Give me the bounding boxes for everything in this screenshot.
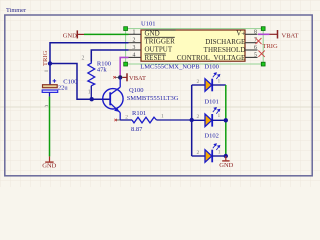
svg-text:D102: D102 (204, 132, 218, 139)
wire OUTPUT net: pin 3 to R100 (91, 50, 128, 62)
svg-text:Timmer: Timmer (6, 7, 27, 14)
svg-text:OUTPUT: OUTPUT (145, 46, 173, 54)
svg-text:D100: D100 (204, 64, 218, 71)
power port VBAT right (270, 30, 299, 39)
LED D101 (192, 108, 226, 127)
faint horizontal guide line (0, 106, 320, 108)
resistor R100 (82, 55, 95, 99)
wire cathode rail (right, green GND net) (225, 85, 227, 156)
svg-text:1: 1 (218, 149, 221, 155)
svg-text:2: 2 (125, 114, 128, 120)
svg-text:THRESHOLD: THRESHOLD (204, 46, 246, 54)
capacitor C100 (42, 71, 58, 92)
svg-text:VBAT: VBAT (282, 32, 299, 39)
selection handle squares (green) (124, 27, 265, 66)
no-ERC cross at collector junction (115, 76, 119, 78)
power port GND top-left (63, 30, 84, 39)
svg-text:GND: GND (219, 162, 233, 169)
no-ERC cross at pin 7 (256, 38, 262, 44)
svg-text:RESET: RESET (145, 54, 167, 62)
svg-text:SMMBT5551LT3G: SMMBT5551LT3G (127, 95, 179, 102)
svg-text:6: 6 (254, 45, 257, 51)
IC U101 LMC555 timer body (141, 30, 245, 61)
svg-text:22u: 22u (58, 85, 69, 92)
junction on TRIG net at C100 (48, 61, 52, 65)
svg-text:2: 2 (197, 79, 200, 85)
svg-text:VBAT: VBAT (129, 75, 146, 82)
pin numbers 1-4 (133, 29, 136, 58)
tick on GND wire at guide line (45, 105, 48, 106)
svg-text:2: 2 (197, 114, 200, 120)
junction Q100 collector / VBAT (118, 75, 122, 79)
wire GND net: port to pin 1 (green) (84, 33, 129, 35)
junction cathode rail / D101 (224, 118, 228, 122)
wire TRIG net: pin 2 to C100 (50, 43, 129, 85)
svg-text:5: 5 (254, 52, 257, 58)
svg-text:LMC555CMX_NOPB: LMC555CMX_NOPB (140, 63, 200, 70)
IC U101 pins 8-5 (right) (245, 34, 258, 57)
svg-text:1: 1 (133, 29, 136, 35)
svg-text:2: 2 (82, 55, 85, 61)
svg-text:2: 2 (197, 150, 200, 156)
svg-text:Q100: Q100 (129, 87, 143, 94)
svg-text:D101: D101 (204, 98, 218, 105)
IC U101 pin names (145, 30, 246, 62)
junction R100 to base wire (90, 97, 94, 101)
svg-text:1: 1 (161, 114, 164, 120)
svg-text:GND: GND (42, 163, 56, 170)
wire C100 to GND (green GND net) (49, 92, 51, 96)
svg-text:1: 1 (218, 113, 221, 119)
junction anode rail / R101 wire (190, 118, 194, 122)
svg-text:R101: R101 (132, 110, 146, 117)
svg-text:GND: GND (63, 32, 77, 39)
no-ERC cross at emitter corner (116, 119, 121, 121)
wire anode rail (left) (191, 85, 193, 156)
pin numbers 8-5 (254, 29, 257, 58)
transistor Q100 (103, 77, 123, 120)
wire VBAT net: pin 8 V+ to VBAT port (purple) (258, 33, 270, 35)
svg-text:1: 1 (218, 78, 221, 84)
svg-text:TRIG: TRIG (42, 51, 49, 66)
svg-text:TRIG: TRIG (263, 43, 278, 50)
power GND bottom-left (42, 156, 56, 169)
svg-text:GND: GND (145, 30, 160, 38)
IC U101 pins 1-4 (left) (129, 34, 142, 57)
pin name overlines (GND, TRIGGER, RESET) (145, 30, 176, 54)
wire VBAT net: pin 4 RESET to collector junction (purple) (120, 57, 128, 77)
svg-text:1: 1 (88, 90, 91, 96)
svg-text:8.87: 8.87 (131, 126, 143, 133)
svg-text:8: 8 (254, 29, 257, 35)
selection rectangle (green) (126, 29, 264, 64)
power GND bottom-right (219, 156, 233, 169)
svg-text:47k: 47k (97, 66, 108, 73)
svg-text:CONTROL_VOLTAGE: CONTROL_VOLTAGE (177, 54, 245, 62)
sheet background (0, 0, 320, 187)
resistor R101 (120, 114, 192, 123)
LED D100 (192, 73, 226, 92)
junction cathode rail / D102 (224, 154, 228, 158)
svg-text:U101: U101 (141, 21, 155, 28)
svg-text:V+: V+ (236, 30, 245, 38)
sheet border (5, 15, 312, 176)
no-ERC cross at pin 5 (258, 51, 264, 57)
svg-text:TRIGGER: TRIGGER (145, 37, 176, 45)
wire TRIG net branch to Q100 base (50, 64, 110, 100)
svg-text:2: 2 (133, 38, 136, 44)
svg-text:3: 3 (133, 45, 136, 51)
power port VBAT (at Q100) (122, 73, 146, 82)
svg-text:4: 4 (133, 52, 136, 58)
LED D102 (192, 144, 226, 163)
